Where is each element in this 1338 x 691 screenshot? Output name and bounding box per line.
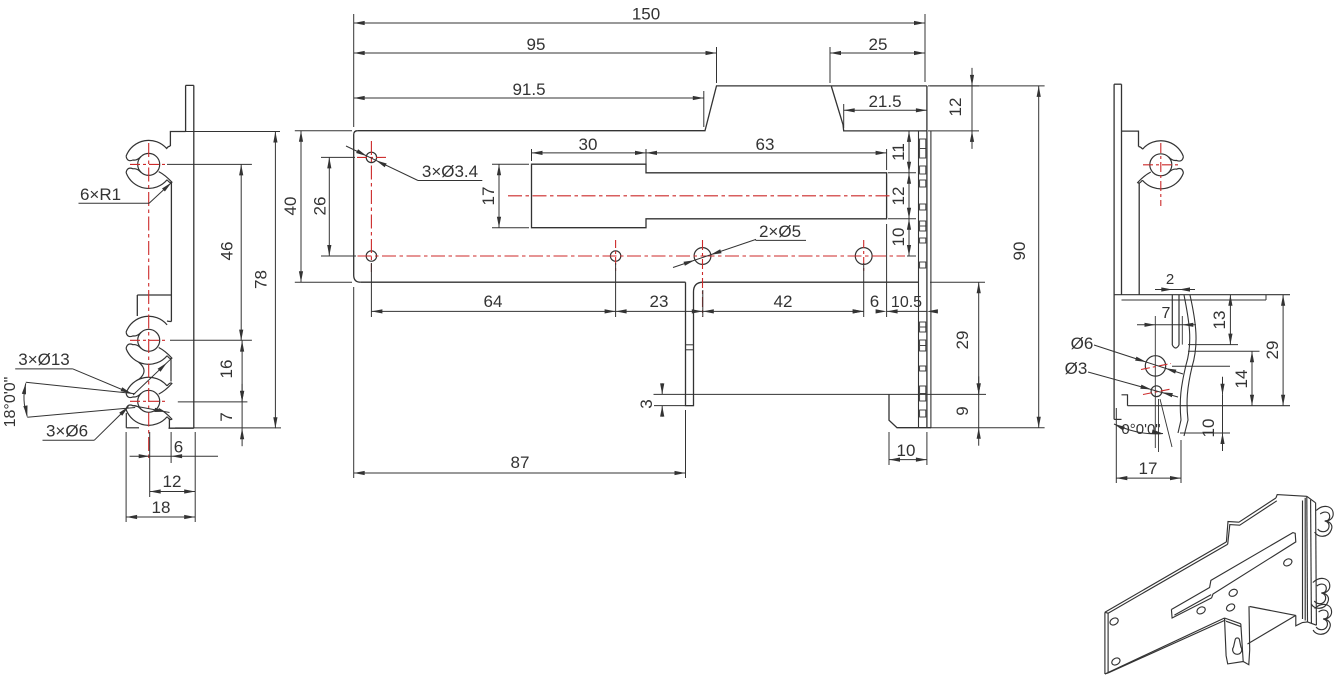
svg-text:Ø6: Ø6 xyxy=(1071,334,1094,353)
svg-text:3×Ø3.4: 3×Ø3.4 xyxy=(422,162,478,181)
svg-text:10: 10 xyxy=(889,228,908,247)
svg-text:17: 17 xyxy=(479,187,498,206)
svg-text:42: 42 xyxy=(774,292,793,311)
svg-text:9: 9 xyxy=(953,406,972,415)
svg-text:Ø3: Ø3 xyxy=(1065,359,1088,378)
svg-text:16: 16 xyxy=(217,360,236,379)
svg-text:12: 12 xyxy=(163,472,182,491)
svg-text:18: 18 xyxy=(152,498,171,517)
svg-text:10: 10 xyxy=(1199,419,1218,438)
svg-text:7: 7 xyxy=(217,412,236,421)
svg-text:13: 13 xyxy=(1210,311,1229,330)
svg-text:91.5: 91.5 xyxy=(512,80,545,99)
svg-text:2×Ø5: 2×Ø5 xyxy=(759,222,801,241)
svg-text:40: 40 xyxy=(281,197,300,216)
svg-text:29: 29 xyxy=(1263,341,1282,360)
svg-text:26: 26 xyxy=(311,197,330,216)
svg-text:3×Ø6: 3×Ø6 xyxy=(46,422,88,441)
svg-text:87: 87 xyxy=(511,453,530,472)
svg-text:2: 2 xyxy=(1166,271,1174,288)
svg-text:21.5: 21.5 xyxy=(868,92,901,111)
svg-text:7: 7 xyxy=(1162,305,1171,322)
svg-text:30: 30 xyxy=(579,135,598,154)
svg-text:14: 14 xyxy=(1232,370,1251,389)
svg-text:6: 6 xyxy=(174,438,183,457)
svg-text:6: 6 xyxy=(870,292,879,311)
svg-text:10.5: 10.5 xyxy=(891,294,922,311)
svg-text:10: 10 xyxy=(897,441,916,460)
svg-text:12: 12 xyxy=(946,98,965,117)
svg-text:3: 3 xyxy=(637,399,656,408)
svg-text:12: 12 xyxy=(889,187,908,206)
svg-text:23: 23 xyxy=(650,292,669,311)
svg-text:6×R1: 6×R1 xyxy=(80,185,121,204)
svg-text:90: 90 xyxy=(1010,242,1029,261)
svg-text:29: 29 xyxy=(953,331,972,350)
svg-text:150: 150 xyxy=(632,5,660,24)
svg-text:17: 17 xyxy=(1139,459,1158,478)
svg-text:64: 64 xyxy=(484,292,503,311)
svg-text:18°0'0": 18°0'0" xyxy=(2,377,19,428)
svg-text:25: 25 xyxy=(869,35,888,54)
svg-text:11: 11 xyxy=(889,143,908,161)
svg-text:0°0'0": 0°0'0" xyxy=(1121,421,1160,438)
svg-text:3×Ø13: 3×Ø13 xyxy=(18,350,70,369)
svg-text:63: 63 xyxy=(756,135,775,154)
svg-text:78: 78 xyxy=(252,270,271,289)
svg-text:46: 46 xyxy=(218,242,237,261)
svg-text:95: 95 xyxy=(527,35,546,54)
